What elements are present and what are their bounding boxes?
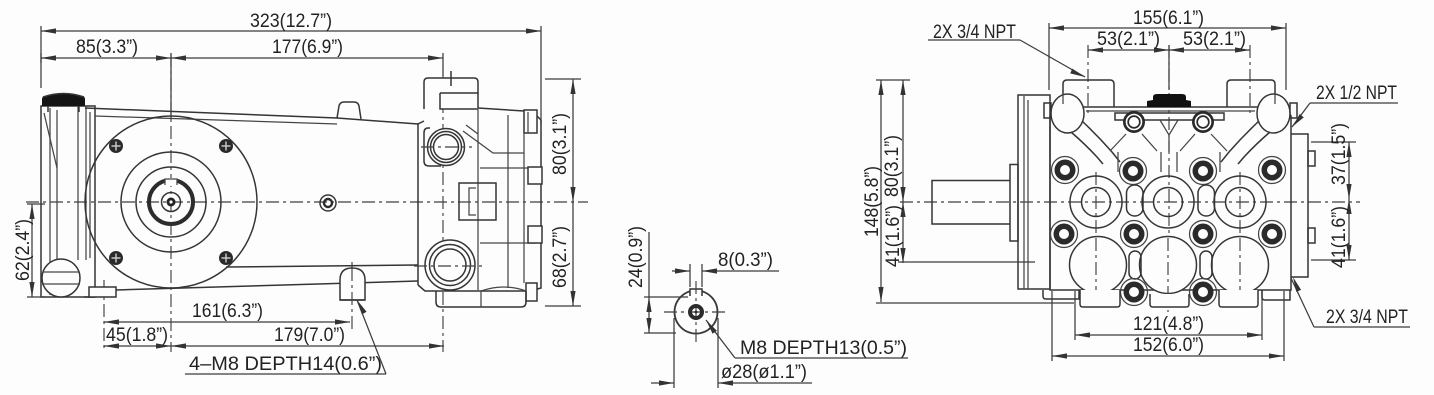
top mounting lug (337, 102, 361, 119)
svg-text:161(6.3”): 161(6.3”) (192, 301, 263, 322)
svg-text:179(7.0”): 179(7.0”) (274, 325, 345, 346)
top port wedge (463, 131, 524, 153)
right side plate (1291, 134, 1308, 277)
svg-text:41(1.6”): 41(1.6”) (883, 205, 904, 267)
svg-text:177(6.9”): 177(6.9”) (272, 37, 343, 58)
casting V below top-right bolt (1180, 134, 1195, 151)
manifold top step (440, 93, 478, 109)
row2 bolt mid-left (1120, 158, 1147, 185)
top port circle (428, 129, 465, 166)
svg-text:152(6.0”): 152(6.0”) (1133, 335, 1204, 356)
dim 53(2.1") left (1088, 45, 1169, 90)
suction valve circle 3 (1212, 237, 1269, 294)
row2 bolt mid-right (1190, 158, 1217, 185)
top hex bolt right (1192, 111, 1214, 133)
dim 62(2.4") left (27, 204, 45, 297)
shaft horizontal centerline (664, 311, 729, 313)
manifold body outline (418, 121, 424, 285)
svg-text:41(1.6”): 41(1.6”) (1329, 206, 1350, 268)
manifold foot (436, 291, 526, 307)
manifold right top block (524, 110, 537, 133)
svg-text:53(2.1”): 53(2.1”) (1097, 29, 1160, 50)
suction valve circle 2 (1140, 237, 1197, 294)
bottom tab right (1219, 290, 1258, 307)
crankcase top edge (85, 108, 418, 124)
top left port boss (1063, 80, 1114, 107)
svg-text:155(6.1”): 155(6.1”) (1133, 8, 1204, 29)
svg-text:80(3.1”): 80(3.1”) (882, 135, 903, 197)
shaft vertical centerline (695, 281, 697, 345)
dim 68(2.7") right (545, 202, 581, 306)
valve cap circle 2 (1142, 176, 1194, 228)
row3 bolt mid-left (1121, 221, 1148, 248)
manifold inspection plate (459, 183, 496, 220)
valve cap circle 3 (1214, 176, 1266, 228)
svg-text:85(3.3”): 85(3.3”) (76, 37, 138, 58)
RIGHT FRONT VIEW (862, 8, 1410, 361)
right ear lobe (1257, 94, 1290, 133)
cylinder 3 centerline (1239, 172, 1241, 238)
LEFT SIDE VIEW (13, 11, 588, 375)
bearing cover outer circle (85, 116, 257, 288)
dim 161(6.3") (104, 319, 350, 324)
row2 bolt far-right (1259, 157, 1286, 184)
left ear lobe (1051, 94, 1084, 133)
row3 bolt far-left (1051, 221, 1078, 248)
dim 155(6.1") (1049, 23, 1286, 90)
bottom right step (1262, 290, 1290, 300)
svg-text:4–M8 DEPTH14(0.6”): 4–M8 DEPTH14(0.6”) (189, 354, 382, 375)
dim 152(6.0") (1052, 291, 1284, 361)
cover bolt top-right (219, 139, 233, 153)
dim 45(1.8") (104, 343, 171, 348)
slot between top circles 1 (1127, 185, 1144, 216)
bottom port centerline (414, 265, 482, 267)
shaft bearing flange (1010, 165, 1018, 242)
crankcase side bolt (320, 195, 336, 211)
vertical crank centerline (170, 54, 172, 352)
crankcase block (1018, 95, 1050, 289)
manifold top tick (450, 71, 452, 86)
left foot block (89, 287, 116, 297)
MIDDLE SHAFT DETAIL (626, 226, 908, 388)
dim 323(12.7") (41, 26, 541, 124)
row3 bolt far-right (1259, 221, 1286, 248)
dim 53(2.1") right (1169, 47, 1250, 52)
M8 tapped hole (690, 306, 702, 318)
crankcase bottom edge (116, 281, 418, 290)
dim ø28(ø1.1") (651, 318, 812, 388)
svg-text:148(5.8”): 148(5.8”) (862, 166, 883, 237)
oil cap black (1147, 94, 1191, 107)
bottom tab middle (1150, 294, 1189, 307)
right side port bump lower (1308, 228, 1315, 243)
row4 bolt left (1121, 279, 1148, 306)
casting arm left diagonal (1082, 121, 1120, 162)
pump rear cover column (41, 106, 95, 297)
slot between bottom circles 1 (1129, 251, 1141, 279)
dim 41(1.6") left (898, 202, 1035, 263)
svg-text:24(0.9”): 24(0.9”) (626, 226, 647, 288)
horizontal crankshaft centerline (26, 201, 588, 203)
crankshaft stub (932, 181, 1010, 225)
svg-text:68(2.7”): 68(2.7”) (550, 226, 571, 288)
bottom left step (1043, 290, 1079, 299)
svg-text:2X 3/4 NPT: 2X 3/4 NPT (1326, 307, 1408, 328)
head top plate (1050, 107, 1291, 129)
left corner tab (1044, 103, 1051, 118)
right side port bump upper (1308, 151, 1315, 166)
casting V below cap (1160, 120, 1178, 135)
rear lug centerline over (351, 268, 353, 330)
svg-text:ø28(ø1.1”): ø28(ø1.1”) (721, 362, 807, 383)
svg-text:121(4.8”): 121(4.8”) (1133, 314, 1204, 335)
dim 80(3.1") left (900, 80, 905, 202)
suction valve circle 1 (1070, 237, 1127, 294)
dim 37(1.5") (1311, 142, 1356, 199)
left port centerline (1087, 45, 1089, 115)
cover bolt bottom-right (219, 251, 233, 265)
bearing cover flange circle (121, 152, 221, 252)
top hex bolt left (1123, 111, 1145, 133)
dim 148(5.8") (876, 80, 1074, 303)
oil drain sight glass (42, 259, 80, 297)
bearing boss circle (136, 167, 206, 237)
svg-text:53(2.1”): 53(2.1”) (1183, 29, 1246, 50)
dim 177(6.9") (171, 53, 443, 76)
svg-text:37(1.5”): 37(1.5”) (1329, 123, 1350, 185)
svg-text:323(12.7”): 323(12.7”) (250, 11, 332, 32)
manifold casting steps (477, 109, 479, 290)
row2 bolt far-left (1052, 157, 1079, 184)
svg-text:80(3.1”): 80(3.1”) (550, 113, 571, 175)
manifold right step lug 3 (526, 283, 537, 301)
slot between top circles 2 (1198, 185, 1215, 216)
svg-text:M8 DEPTH13(0.5”): M8 DEPTH13(0.5”) (740, 338, 907, 359)
bottom port circles (425, 240, 475, 290)
dim 85(3.3") (41, 53, 171, 118)
row3 bolt mid-right (1190, 221, 1217, 248)
svg-text:8(0.3”): 8(0.3”) (718, 250, 773, 271)
cover bolt bottom-left (109, 251, 123, 265)
svg-text:2X 1/2 NPT: 2X 1/2 NPT (1316, 83, 1397, 104)
manifold top rect (424, 78, 478, 109)
cylinder centerline segments (1095, 238, 1097, 310)
casting V below top-left bolt (1110, 134, 1126, 151)
top port centerlines (421, 146, 472, 148)
rear lug centerline (351, 262, 353, 268)
casting pillar lines (1117, 152, 1119, 172)
dim 41(1.6") right (1311, 199, 1356, 260)
dim 121(4.8") (1075, 291, 1262, 340)
manifold right step lug 1 (528, 167, 542, 184)
slot between bottom circles 2 (1200, 251, 1212, 279)
vertical port centerline (442, 76, 444, 352)
head main block (1050, 129, 1291, 290)
dim 80(3.1") right (545, 79, 581, 202)
manifold top band (478, 108, 524, 111)
right port centerline (1249, 45, 1251, 115)
left foot hole centerline (103, 280, 105, 352)
top port flange corner (424, 128, 441, 166)
shaft section circle (675, 291, 718, 334)
keyway notch (690, 288, 702, 297)
crankshaft bore ring (149, 180, 193, 224)
shaft hub (162, 193, 181, 212)
bolt plate (1115, 113, 1224, 120)
manifold right step lug 2 (528, 226, 542, 243)
top right port boss (1227, 80, 1275, 107)
center cylinder centerline (1168, 45, 1170, 238)
row4 bolt right (1190, 279, 1217, 306)
right corner tab (1290, 103, 1297, 118)
cylinder 1 centerline (1095, 172, 1097, 238)
svg-text:45(1.8”): 45(1.8”) (106, 325, 168, 346)
dim 8(0.3") (672, 264, 779, 287)
dim 179(7.0") (171, 343, 444, 348)
rear mounting lug (340, 268, 365, 300)
dim 24(0.9") (644, 232, 688, 333)
bottom tab left (1080, 290, 1120, 307)
valve cap circle 1 (1070, 176, 1122, 228)
casting arm right diagonal (1221, 121, 1259, 162)
horizontal shaft centerline (900, 201, 1360, 203)
cover bolt top-left (109, 139, 123, 153)
svg-text:62(2.4”): 62(2.4”) (13, 219, 34, 281)
oil filler cap black knurled (42, 96, 85, 106)
